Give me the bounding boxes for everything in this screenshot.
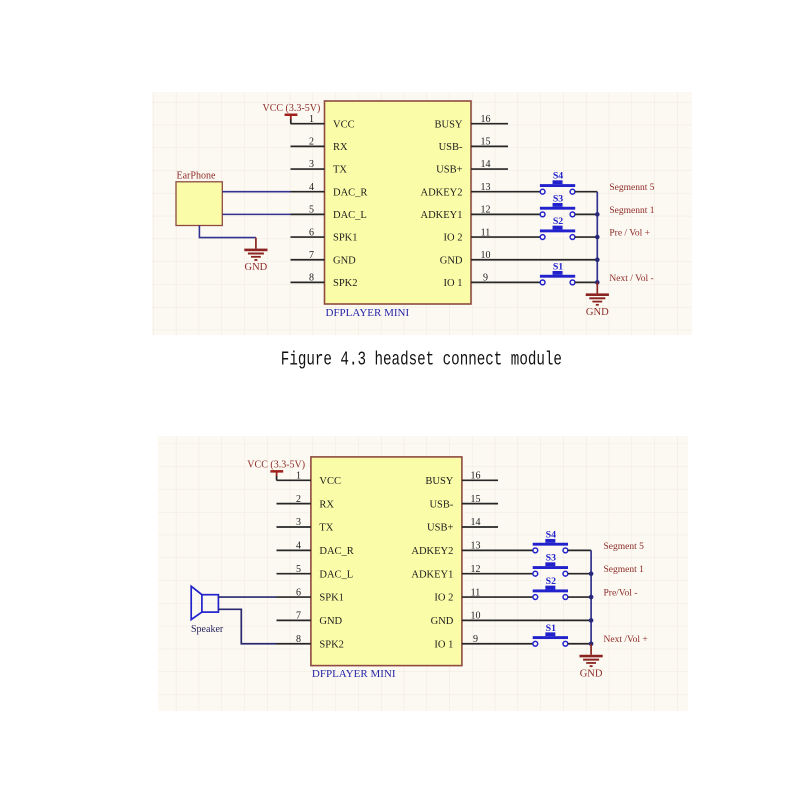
junction dot [595, 280, 600, 285]
pin 14 (USB+) wire and number [436, 159, 508, 175]
svg-text:VCC (3.3-5V): VCC (3.3-5V) [263, 103, 321, 114]
wire S1 right terminal to ground bus (bottom) [568, 643, 591, 645]
svg-text:6: 6 [296, 587, 301, 598]
svg-text:DAC_R: DAC_R [333, 187, 367, 198]
pin 11 (IO 2) wire and number (bottom) [434, 587, 532, 603]
speaker LS1 symbol [191, 586, 218, 619]
svg-text:SPK1: SPK1 [319, 593, 344, 604]
svg-text:GND: GND [580, 668, 603, 679]
pin 3 (TX) wire and number [291, 159, 348, 175]
svg-text:S1: S1 [546, 623, 556, 634]
svg-text:BUSY: BUSY [425, 476, 453, 487]
pin 14 (USB+) wire and number (bottom) [427, 517, 498, 533]
wire S4 right terminal to ground bus [575, 191, 597, 193]
svg-text:Segment 1: Segment 1 [604, 565, 645, 575]
svg-text:TX: TX [333, 165, 347, 176]
svg-text:SPK1: SPK1 [333, 233, 358, 244]
pin 6 (SPK1) wire and number (bottom) [277, 587, 344, 603]
pushbutton S3 bottom [533, 553, 568, 576]
pushbutton S4 top [540, 171, 575, 194]
wire S3 right terminal to ground bus (bottom) [568, 573, 591, 575]
wire S2 right terminal to ground bus [575, 236, 597, 238]
junction dot [589, 571, 594, 576]
svg-text:16: 16 [481, 114, 491, 125]
pin 3 (TX) wire and number (bottom) [277, 517, 334, 533]
pin 2 (RX) wire and number [291, 137, 349, 153]
svg-text:DFPLAYER MINI: DFPLAYER MINI [312, 668, 396, 680]
svg-text:DAC_R: DAC_R [319, 546, 353, 557]
svg-text:S2: S2 [553, 216, 563, 227]
wire S1 right terminal to ground bus [575, 281, 597, 283]
junction dot [595, 257, 600, 262]
pin 10 (GND) wire and number [440, 250, 598, 266]
svg-text:12: 12 [471, 564, 481, 575]
svg-text:VCC: VCC [333, 119, 355, 130]
svg-text:IO 1: IO 1 [444, 278, 463, 289]
svg-text:4: 4 [309, 182, 314, 193]
pin 16 (BUSY) wire and number (bottom) [425, 471, 498, 487]
pin 12 (ADKEY1) wire and number [421, 205, 541, 221]
pin 8 (SPK2) wire and number [291, 273, 358, 289]
svg-text:Pre / Vol +: Pre / Vol + [609, 228, 650, 238]
pushbutton S3 top [540, 193, 575, 216]
svg-text:11: 11 [481, 227, 491, 238]
svg-text:TX: TX [319, 523, 333, 534]
ground GND left (earphone) [244, 238, 267, 274]
ground GND right bottom [580, 644, 603, 680]
pin 15 (USB-) wire and number (bottom) [429, 494, 498, 510]
svg-text:Segmennt 5: Segmennt 5 [609, 183, 654, 193]
wire Speaker to SPK1 (pin 6) [218, 596, 276, 598]
pin 9 (IO 1) wire and number (bottom) [434, 634, 532, 650]
svg-text:13: 13 [481, 182, 491, 193]
svg-text:DAC_L: DAC_L [319, 569, 353, 580]
svg-text:13: 13 [471, 541, 481, 552]
pushbutton S2 bottom [533, 576, 568, 599]
svg-text:Segment 5: Segment 5 [604, 542, 645, 552]
svg-text:10: 10 [471, 611, 481, 622]
svg-text:3: 3 [296, 517, 301, 528]
pushbutton S2 top [540, 216, 575, 239]
svg-text:10: 10 [481, 250, 491, 261]
svg-text:Next / Vol -: Next / Vol - [609, 274, 653, 284]
svg-text:GND: GND [431, 616, 454, 627]
pin 4 (DAC_R) wire and number (bottom) [277, 541, 354, 557]
svg-text:Figure 4.3 headset connect mod: Figure 4.3 headset connect module [281, 350, 562, 372]
pin 1 (VCC) wire and number [291, 114, 355, 130]
svg-text:9: 9 [473, 634, 478, 645]
IC U1 DFPLAYER MINI body [325, 101, 472, 304]
svg-text:RX: RX [319, 499, 334, 510]
svg-text:ADKEY1: ADKEY1 [421, 210, 463, 221]
pin 7 (GND) wire and number (bottom) [277, 611, 343, 627]
junction dot [595, 212, 600, 217]
pin 4 (DAC_R) wire and number [291, 182, 368, 198]
svg-text:GND: GND [245, 262, 268, 273]
svg-text:14: 14 [481, 159, 491, 170]
pin 11 (IO 2) wire and number [444, 227, 541, 243]
svg-text:RX: RX [333, 142, 348, 153]
svg-text:IO 1: IO 1 [434, 639, 453, 650]
svg-text:4: 4 [296, 541, 301, 552]
connector EarPhone box [176, 182, 222, 226]
svg-text:S1: S1 [553, 261, 563, 272]
pin 5 (DAC_L) wire and number [291, 205, 367, 221]
ground bus wire (vertical) bottom schematic [590, 550, 592, 644]
svg-text:VCC (3.3-5V): VCC (3.3-5V) [247, 460, 305, 471]
svg-text:ADKEY2: ADKEY2 [411, 546, 453, 557]
wire EarPhone to DAC_R (pin 4) [222, 191, 290, 193]
pin 15 (USB-) wire and number [439, 137, 508, 153]
svg-text:IO 2: IO 2 [444, 233, 463, 244]
pin 12 (ADKEY1) wire and number (bottom) [411, 564, 533, 580]
svg-text:14: 14 [471, 517, 481, 528]
ground GND right top [586, 282, 609, 318]
pin 1 (VCC) wire and number (bottom) [277, 471, 341, 487]
wire S3 right terminal to ground bus [575, 213, 597, 215]
svg-text:VCC: VCC [319, 476, 341, 487]
svg-text:2: 2 [296, 494, 301, 505]
svg-text:BUSY: BUSY [434, 119, 462, 130]
svg-text:USB+: USB+ [436, 165, 462, 176]
pushbutton S1 bottom [533, 623, 568, 646]
svg-text:1: 1 [296, 471, 301, 482]
svg-text:S2: S2 [546, 576, 556, 587]
pin 9 (IO 1) wire and number [444, 273, 541, 289]
svg-text:USB-: USB- [439, 142, 463, 153]
power flag VCC top [263, 103, 321, 124]
svg-text:5: 5 [309, 205, 314, 216]
svg-text:15: 15 [481, 137, 491, 148]
svg-text:USB+: USB+ [427, 523, 453, 534]
junction dot [589, 641, 594, 646]
wire Speaker to SPK2 (pin 8) [218, 609, 276, 643]
svg-text:6: 6 [309, 227, 314, 238]
ground bus wire (vertical) top schematic [596, 192, 598, 284]
power flag VCC bottom [247, 460, 305, 481]
svg-text:15: 15 [471, 494, 481, 505]
svg-text:GND: GND [333, 255, 356, 266]
svg-text:SPK2: SPK2 [333, 278, 358, 289]
svg-text:8: 8 [296, 634, 301, 645]
svg-text:SPK2: SPK2 [319, 639, 344, 650]
pushbutton S4 bottom [533, 529, 568, 552]
pin 16 (BUSY) wire and number [434, 114, 508, 130]
svg-text:7: 7 [296, 611, 301, 622]
svg-text:GND: GND [319, 616, 342, 627]
svg-text:ADKEY2: ADKEY2 [421, 187, 463, 198]
wire S2 right terminal to ground bus (bottom) [568, 596, 591, 598]
svg-text:Speaker: Speaker [191, 624, 224, 635]
svg-text:USB-: USB- [429, 499, 453, 510]
top schematic grid background [152, 92, 692, 335]
svg-text:1: 1 [309, 114, 314, 125]
pin 10 (GND) wire and number (bottom) [431, 611, 591, 627]
svg-text:S3: S3 [546, 553, 556, 564]
pin 8 (SPK2) wire and number (bottom) [277, 634, 344, 650]
svg-text:Next /Vol +: Next /Vol + [604, 635, 648, 645]
svg-text:ADKEY1: ADKEY1 [411, 569, 453, 580]
svg-text:DFPLAYER MINI: DFPLAYER MINI [326, 307, 410, 319]
pin 13 (ADKEY2) wire and number (bottom) [411, 541, 533, 557]
pin 5 (DAC_L) wire and number (bottom) [277, 564, 354, 580]
bottom schematic grid background [158, 436, 688, 711]
svg-text:GND: GND [440, 255, 463, 266]
svg-text:S3: S3 [553, 193, 563, 204]
svg-text:12: 12 [481, 205, 491, 216]
IC U2 DFPLAYER MINI body [311, 457, 462, 666]
svg-text:7: 7 [309, 250, 314, 261]
svg-text:EarPhone: EarPhone [177, 171, 216, 182]
svg-text:3: 3 [309, 159, 314, 170]
svg-text:GND: GND [586, 307, 609, 318]
svg-text:16: 16 [471, 471, 481, 482]
pin 13 (ADKEY2) wire and number [421, 182, 541, 198]
junction dot [589, 595, 594, 600]
pin 7 (GND) wire and number [291, 250, 357, 266]
svg-text:S4: S4 [553, 171, 563, 182]
svg-text:8: 8 [309, 273, 314, 284]
wire EarPhone to DAC_L (pin 5) [222, 213, 290, 215]
svg-text:DAC_L: DAC_L [333, 210, 367, 221]
wire S4 right terminal to ground bus (bottom) [568, 549, 591, 551]
svg-text:Segmennt 1: Segmennt 1 [609, 206, 654, 216]
wire EarPhone to ground [199, 226, 256, 238]
junction dot [595, 235, 600, 240]
svg-text:11: 11 [471, 587, 481, 598]
svg-text:2: 2 [309, 137, 314, 148]
pin 2 (RX) wire and number (bottom) [277, 494, 335, 510]
pin 6 (SPK1) wire and number [291, 227, 358, 243]
junction dot [589, 618, 594, 623]
svg-text:5: 5 [296, 564, 301, 575]
svg-text:9: 9 [483, 273, 488, 284]
svg-text:IO 2: IO 2 [434, 593, 453, 604]
svg-text:S4: S4 [546, 529, 556, 540]
svg-text:Pre/Vol -: Pre/Vol - [604, 588, 638, 598]
pushbutton S1 top [540, 261, 575, 284]
